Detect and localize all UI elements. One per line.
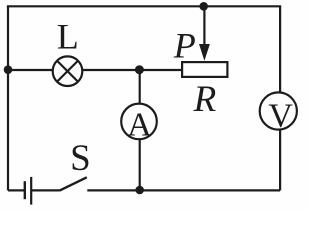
- svg-text:S: S: [70, 138, 91, 179]
- svg-text:L: L: [57, 16, 79, 56]
- svg-text:R: R: [193, 79, 217, 120]
- svg-text:P: P: [173, 26, 196, 66]
- svg-text:A: A: [127, 107, 152, 144]
- svg-text:V: V: [268, 97, 293, 134]
